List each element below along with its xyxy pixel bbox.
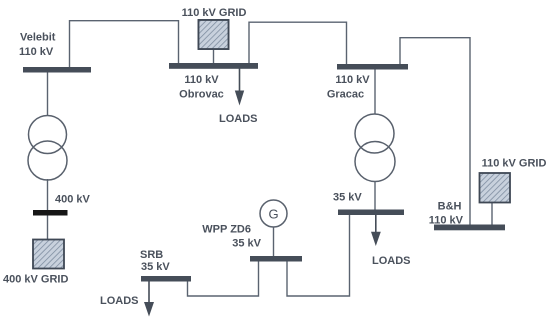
equivalent grid box: 400 kV GRID (left)	[33, 240, 64, 269]
busbar B&H 110 kV	[434, 225, 505, 231]
svg-text:WPP ZD6: WPP ZD6	[202, 224, 251, 236]
wire: Velebit busbar down to transformer T1	[47, 70, 49, 116]
wire: Gracac busbar down to transformer T2	[374, 68, 376, 114]
svg-text:400 kV GRID: 400 kV GRID	[3, 274, 68, 286]
svg-text:35 kV: 35 kV	[141, 261, 170, 273]
svg-text:Obrovac: Obrovac	[179, 89, 224, 101]
busbar SRB 35 kV	[141, 276, 191, 282]
svg-text:35 kV: 35 kV	[333, 192, 362, 204]
wire: generator G down to WPP busbar	[273, 227, 275, 257]
svg-text:110 kV: 110 kV	[335, 74, 370, 86]
wire: WPP busbar right drop, bottom horizontal, up to 35 kV busbar	[287, 214, 350, 296]
transformer T1 (Velebit 110/400 kV) upper winding	[29, 116, 67, 154]
arrow: LOADS at 35 kV busbar	[375, 215, 377, 233]
generator G (WPP ZD6)	[260, 200, 287, 227]
svg-text:35 kV: 35 kV	[232, 238, 261, 250]
wire: 400 kV busbar down to 400 kV GRID box	[47, 214, 49, 240]
busbar Gracac 110 kV	[337, 64, 408, 70]
equivalent grid box: 110 kV GRID (top, Obrovac)	[199, 20, 229, 49]
svg-text:400 kV: 400 kV	[55, 194, 91, 206]
wire: 110 kV GRID box down to Obrovac busbar	[213, 49, 215, 64]
svg-text:B&H: B&H	[438, 201, 462, 213]
transformer T2 lower winding	[355, 142, 395, 182]
busbar Obrovac 110 kV	[169, 63, 258, 69]
wire: transformer T2 down to 35 kV busbar	[374, 181, 376, 211]
busbar 400 kV	[33, 210, 68, 216]
wire: Obrovac busbar riser to middle horizontal link and drop to Gracac busbar	[249, 22, 347, 64]
svg-text:Velebit: Velebit	[20, 32, 56, 44]
wire: B&H 110 kV GRID box down to B&H busbar	[491, 202, 493, 226]
svg-text:LOADS: LOADS	[100, 295, 139, 307]
arrow: LOADS at Obrovac busbar	[239, 69, 241, 93]
svg-text:LOADS: LOADS	[219, 113, 258, 125]
svg-text:LOADS: LOADS	[372, 255, 411, 267]
wire: Gracac busbar riser to right horizontal link and long drop to B&H busbar	[400, 38, 470, 225]
transformer T1 lower winding	[28, 141, 67, 180]
svg-text:110 kV: 110 kV	[19, 46, 54, 58]
svg-text:SRB: SRB	[140, 249, 163, 261]
svg-text:110 kV GRID: 110 kV GRID	[182, 7, 247, 19]
busbar 35 kV Gracac	[338, 210, 404, 216]
svg-text:110 kV: 110 kV	[429, 215, 464, 227]
svg-text:110 kV GRID: 110 kV GRID	[482, 158, 547, 170]
busbar Velebit 110 kV	[23, 67, 91, 73]
svg-text:Gracac: Gracac	[327, 89, 364, 101]
arrow: LOADS at SRB busbar	[148, 282, 150, 304]
equivalent grid box: 110 kV GRID (right, B&H)	[480, 173, 511, 203]
svg-text:G: G	[268, 207, 278, 222]
busbar WPP ZD6 35 kV	[250, 256, 302, 262]
wire: transformer T1 down to 400 kV busbar	[47, 179, 49, 211]
wire: Velebit busbar riser to top-left horizontal link and drop to Obrovac busbar	[70, 21, 179, 68]
svg-text:110 kV: 110 kV	[184, 74, 219, 86]
transformer T2 (Gracac 110/35 kV) upper winding	[355, 114, 394, 153]
wire: WPP busbar left drop, bottom horizontal, up to SRB busbar	[188, 261, 259, 296]
